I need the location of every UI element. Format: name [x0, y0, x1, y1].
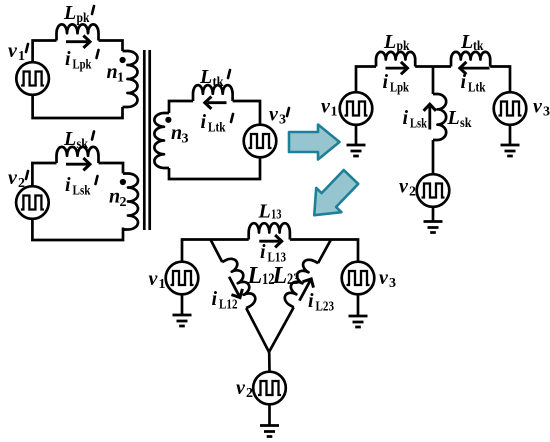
current arrow iLtk (left) [460, 62, 490, 74]
label iLsk' [65, 174, 98, 199]
label n1 [107, 61, 125, 86]
label Lsk [447, 107, 472, 131]
current arrow iL12 (down-right) [224, 274, 246, 301]
svg-text:n: n [171, 122, 182, 144]
inductor Lsk coil (vertical) [433, 94, 446, 140]
wire T top left [356, 67, 376, 93]
svg-text:i: i [212, 288, 218, 310]
ground v1 delta [173, 294, 192, 326]
svg-text:v: v [321, 96, 331, 118]
svg-text:i: i [383, 71, 389, 93]
svg-text:3: 3 [543, 105, 550, 120]
current arrow iLpk' [66, 36, 90, 48]
svg-text:pk: pk [397, 39, 410, 54]
ground v2 delta [260, 404, 279, 436]
label v3 delta [379, 267, 396, 291]
svg-text:L12: L12 [219, 298, 238, 313]
label iLsk [403, 107, 428, 132]
voltage source v3' [244, 125, 277, 158]
svg-text:n: n [107, 61, 118, 83]
wire loop2 bottom and left [32, 219, 123, 240]
core line right [148, 50, 151, 230]
svg-text:2: 2 [120, 195, 127, 210]
current arrow iLsk (up) [424, 104, 436, 129]
label n3 [171, 122, 189, 147]
svg-text:2: 2 [246, 386, 253, 401]
current arrow iL13 [259, 235, 281, 247]
svg-text:L: L [247, 263, 263, 289]
wire T top right [490, 67, 510, 93]
current arrow iL23 (up-right) [294, 276, 317, 304]
winding n3 [154, 113, 169, 168]
svg-text:Lsk: Lsk [410, 117, 427, 132]
svg-text:Ltk: Ltk [208, 121, 226, 136]
wire loop3 bottom [169, 157, 260, 179]
inductor Lpk coil [376, 52, 415, 67]
ground v3 [501, 125, 520, 156]
svg-text:13: 13 [271, 208, 282, 223]
voltage source v2' [16, 186, 49, 219]
label L13 [258, 201, 282, 223]
label Ltk [460, 31, 484, 54]
svg-text:v: v [533, 96, 543, 118]
label iL12 [212, 288, 238, 313]
node dot n3 [165, 117, 171, 123]
label Lsk' [63, 128, 94, 152]
label iLtk [461, 71, 486, 96]
svg-text:v: v [269, 104, 279, 126]
svg-text:v: v [379, 267, 389, 289]
wire delta vertex to v2 [268, 352, 271, 372]
label v1 delta [149, 268, 166, 292]
wire T top mid [415, 65, 451, 68]
svg-text:L: L [199, 66, 212, 88]
svg-text:3: 3 [182, 132, 189, 147]
wire delta right diagonal upper [318, 240, 331, 264]
label iLpk [383, 71, 410, 96]
voltage source v2 [417, 174, 450, 207]
ground v3 delta [349, 294, 368, 327]
label v3 [533, 96, 550, 120]
label Lpk' [63, 2, 94, 26]
svg-text:23: 23 [287, 271, 300, 288]
current arrow iLsk' [66, 158, 90, 170]
svg-text:i: i [260, 241, 266, 263]
svg-text:L: L [63, 128, 76, 150]
svg-text:L: L [447, 107, 460, 129]
label v3' [269, 104, 289, 128]
voltage source v3 delta [342, 262, 375, 295]
svg-text:L: L [63, 2, 76, 24]
label iL23 [308, 290, 334, 315]
label v1 [321, 96, 338, 120]
inductor Ltk' coil [193, 85, 233, 101]
svg-text:tk: tk [473, 39, 484, 54]
svg-text:i: i [403, 107, 409, 129]
svg-text:v: v [236, 377, 246, 399]
voltage source v2 delta [253, 372, 286, 405]
label v2 [399, 176, 416, 200]
voltage source v1 [340, 92, 373, 125]
wire loop1 bottom and left [33, 95, 123, 118]
svg-text:Lpk: Lpk [73, 58, 92, 73]
label v2 delta [236, 377, 253, 401]
svg-text:2: 2 [18, 176, 25, 191]
svg-text:i: i [65, 48, 71, 70]
node dot n2 [120, 179, 126, 185]
svg-text:L: L [460, 31, 473, 53]
svg-text:L: L [383, 31, 396, 53]
inductor L13 coil [249, 223, 290, 239]
core line left [143, 50, 146, 230]
wire delta top left [182, 240, 249, 262]
wire delta top right [290, 240, 358, 262]
svg-text:sk: sk [460, 116, 472, 131]
wire loop2 top and right [32, 163, 123, 187]
wire delta left diagonal upper [211, 240, 223, 263]
svg-text:L: L [272, 263, 288, 289]
wire loop1 top and right [33, 41, 123, 63]
label iLpk' [65, 48, 99, 73]
svg-text:v: v [149, 268, 159, 290]
svg-text:1: 1 [331, 105, 338, 120]
label Lpk [383, 31, 410, 54]
svg-text:L: L [258, 201, 271, 223]
svg-text:pk: pk [77, 11, 90, 26]
inductor Lsk' coil [57, 147, 99, 163]
inductor L23 coil [282, 257, 318, 307]
inductor Ltk coil [451, 52, 490, 67]
label iLtk' [201, 111, 234, 136]
svg-text:Lpk: Lpk [390, 81, 409, 96]
ground v2 [424, 207, 443, 233]
wire T Lsk to v2 [432, 140, 435, 174]
label v1' [8, 40, 28, 64]
voltage source v3 [494, 92, 527, 125]
node dot n1 [120, 57, 126, 63]
voltage source v1' [16, 62, 49, 95]
winding n1 [123, 51, 138, 107]
svg-text:sk: sk [77, 137, 89, 152]
label iL13 [260, 241, 286, 266]
svg-text:v: v [399, 176, 409, 198]
svg-text:3: 3 [279, 113, 286, 128]
label n2 [109, 186, 127, 211]
ground v1 [347, 125, 366, 156]
svg-text:i: i [201, 111, 207, 133]
svg-text:3: 3 [389, 276, 396, 291]
svg-text:v: v [8, 40, 18, 62]
label L23 [272, 263, 300, 289]
svg-text:L23: L23 [316, 300, 335, 315]
label L12 [247, 263, 275, 289]
current arrow iLpk [386, 62, 408, 74]
voltage source v1 delta [166, 262, 199, 295]
svg-text:i: i [65, 174, 71, 196]
svg-text:1: 1 [159, 277, 166, 292]
label Ltk' [199, 66, 230, 90]
wire T junction down [432, 67, 435, 95]
wire delta left diagonal lower [246, 307, 294, 352]
svg-text:2: 2 [409, 185, 416, 200]
svg-text:1: 1 [117, 71, 124, 86]
winding n2 [123, 174, 138, 230]
inductor Lpk' coil [57, 24, 99, 40]
svg-text:1: 1 [18, 49, 25, 64]
svg-text:n: n [109, 186, 120, 208]
label v2' [8, 167, 28, 191]
current arrow iLtk' (left) [205, 97, 227, 109]
svg-text:Lsk: Lsk [73, 184, 91, 199]
svg-text:Ltk: Ltk [468, 81, 486, 96]
svg-text:tk: tk [213, 75, 224, 90]
svg-text:i: i [461, 71, 467, 93]
svg-text:i: i [308, 290, 314, 312]
inductor L12 coil [222, 256, 258, 308]
wire loop3 top [169, 101, 260, 125]
svg-text:v: v [8, 167, 18, 189]
